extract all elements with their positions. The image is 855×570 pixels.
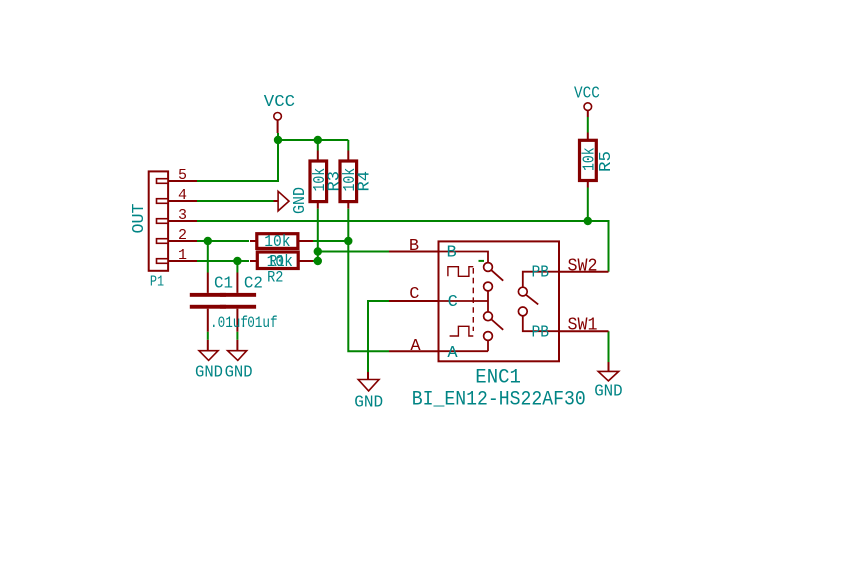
- svg-text:4: 4: [178, 187, 187, 204]
- svg-text:C: C: [409, 285, 419, 304]
- svg-text:ENC1: ENC1: [475, 367, 521, 390]
- svg-text:PB: PB: [532, 263, 550, 282]
- svg-text:GND: GND: [594, 382, 623, 401]
- svg-text:VCC: VCC: [574, 85, 600, 104]
- svg-text:GND: GND: [225, 363, 253, 382]
- svg-text:PB: PB: [532, 324, 550, 343]
- svg-text:GND: GND: [354, 393, 383, 412]
- svg-text:.01uf: .01uf: [240, 314, 278, 332]
- svg-text:10k: 10k: [580, 147, 599, 171]
- svg-text:R4: R4: [356, 171, 375, 192]
- svg-text:C: C: [448, 293, 458, 312]
- svg-text:R5: R5: [597, 151, 616, 172]
- svg-text:A: A: [447, 344, 458, 363]
- svg-text:B: B: [409, 237, 419, 256]
- svg-text:3: 3: [178, 207, 187, 224]
- svg-text:C1: C1: [214, 275, 233, 294]
- svg-text:10k: 10k: [264, 232, 290, 251]
- svg-text:BI_EN12-HS22AF30: BI_EN12-HS22AF30: [412, 388, 586, 411]
- svg-text:2: 2: [178, 227, 187, 244]
- svg-text:GND: GND: [195, 363, 223, 382]
- svg-text:1: 1: [178, 247, 187, 264]
- svg-text:C2: C2: [244, 275, 263, 294]
- svg-text:R2: R2: [267, 268, 283, 286]
- svg-text:VCC: VCC: [264, 93, 295, 112]
- svg-text:OUT: OUT: [130, 204, 149, 234]
- svg-text:A: A: [410, 337, 421, 356]
- svg-text:SW2: SW2: [568, 256, 598, 276]
- svg-text:B: B: [447, 244, 457, 263]
- svg-text:GND: GND: [291, 187, 310, 214]
- svg-text:SW1: SW1: [568, 316, 598, 336]
- svg-text:P1: P1: [150, 274, 164, 291]
- svg-text:5: 5: [178, 167, 187, 184]
